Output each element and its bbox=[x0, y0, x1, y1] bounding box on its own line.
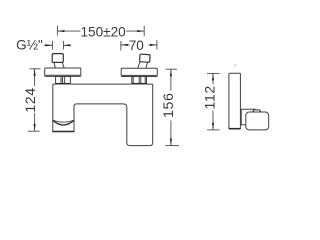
svg-text:70: 70 bbox=[129, 38, 145, 53]
svg-text:G½": G½" bbox=[16, 37, 43, 52]
svg-text:124: 124 bbox=[23, 87, 39, 112]
svg-text:150±20: 150±20 bbox=[80, 24, 126, 39]
svg-text:112: 112 bbox=[202, 85, 218, 109]
svg-text:156: 156 bbox=[161, 93, 177, 118]
